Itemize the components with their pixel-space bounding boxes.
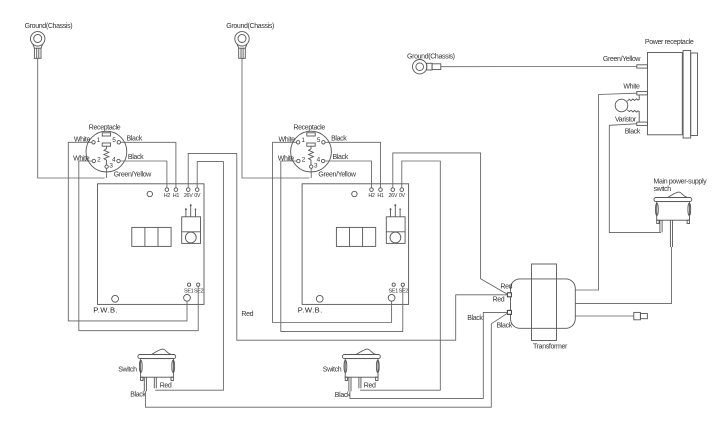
- svg-text:Black: Black: [127, 136, 143, 143]
- wire PWB2 26V (Red) to transformer: [393, 153, 508, 294]
- svg-text:Red: Red: [364, 383, 376, 390]
- svg-text:P.W.B.: P.W.B.: [298, 305, 323, 314]
- wire PWB1 26V (Red) to transformer: [188, 153, 507, 340]
- svg-text:3: 3: [314, 162, 318, 169]
- switch S2 terminal tabs: [349, 377, 361, 391]
- P.W.B. PWB2 relay component with pins: [386, 204, 405, 243]
- wire PWB1 0V to switch S1 Red terminal: [155, 162, 223, 391]
- wire J2 pin5 Black to PWB2 H1: [325, 142, 380, 188]
- transformer body: [511, 279, 576, 328]
- wire J2 pin2 White to PWB2 SE2: [281, 161, 403, 332]
- P.W.B. PWB2 terminal H2: [368, 188, 375, 199]
- P.W.B. PWB2 terminal SE1: [389, 283, 399, 295]
- P.W.B. PWB1 terminal 26V: [184, 188, 193, 199]
- wire GND2 to J2 pin3 (Green/Yellow): [242, 58, 309, 178]
- svg-text:Black: Black: [467, 315, 483, 322]
- wire J1 pin5 Black to PWB1 H1: [121, 142, 176, 188]
- svg-text:Red: Red: [500, 284, 512, 291]
- receptacle J2 pin 2: [297, 156, 306, 163]
- svg-text:H1: H1: [173, 193, 180, 199]
- P.W.B. PWB1 connector block (3 cells): [132, 227, 171, 246]
- wire J1 pin2 White to PWB1 SE2: [79, 161, 198, 331]
- wire J1 pin4 Black to PWB1 H2: [120, 161, 167, 188]
- svg-text:Black: Black: [128, 154, 144, 161]
- P.W.B. PWB1 terminal 0V: [194, 188, 201, 199]
- P.W.B. PWB1 pad below SE1: [184, 294, 191, 301]
- switch S2 body: [344, 359, 379, 381]
- wire GND3 to power receptacle Green/Yellow: [441, 66, 637, 68]
- svg-text:Transformer: Transformer: [533, 344, 568, 351]
- wire switch S1 Black to transformer: [145, 313, 507, 407]
- P.W.B. PWB2 mounting hole (bottom-left): [316, 295, 323, 302]
- wire J2 pin1 White to PWB2 SE1: [273, 142, 392, 322]
- wire PWB2 0V to switch S2 Red terminal: [360, 161, 440, 390]
- wire J1 pin3 down: [106, 168, 108, 178]
- svg-text:Receptacle: Receptacle: [89, 125, 121, 132]
- P.W.B. PWB1 board outline: [98, 184, 205, 305]
- svg-text:SE1: SE1: [389, 289, 399, 295]
- receptacle J2 pin 1: [296, 137, 305, 144]
- svg-text:Main power-supply: Main power-supply: [654, 179, 708, 186]
- P.W.B. PWB2 terminal H1: [377, 188, 384, 199]
- svg-text:Black: Black: [333, 154, 349, 161]
- svg-text:Ground(Chassis): Ground(Chassis): [25, 23, 73, 30]
- P.W.B. PWB1 mounting hole (top): [147, 191, 152, 196]
- svg-text:2: 2: [302, 156, 306, 163]
- power receptacle terminal White: [637, 92, 648, 95]
- P.W.B. PWB2 mounting hole (top): [352, 191, 357, 196]
- wire transformer to power receptacle White: [575, 93, 637, 290]
- svg-text:White: White: [278, 156, 295, 163]
- svg-text:Power receptacle: Power receptacle: [645, 39, 694, 46]
- P.W.B. PWB1 terminal SE2: [194, 283, 204, 295]
- svg-text:Ground(Chassis): Ground(Chassis): [226, 23, 274, 30]
- switch S1 top bar: [138, 355, 176, 359]
- svg-text:26V: 26V: [184, 193, 193, 199]
- ground lug GND3 ring (horizontal): [413, 59, 441, 73]
- P.W.B. PWB2 board outline: [302, 184, 409, 305]
- receptacle J2 body: [291, 131, 332, 172]
- P.W.B. PWB2 terminal 0V: [399, 188, 406, 199]
- varistor RV1: [615, 95, 639, 122]
- power receptacle body: [648, 51, 698, 139]
- receptacle J1 pin 2: [92, 156, 101, 163]
- receptacle J1 pin 4: [112, 156, 120, 163]
- svg-text:SE2: SE2: [194, 289, 204, 295]
- P.W.B. PWB2 pad below SE1: [388, 294, 395, 301]
- svg-text:Red: Red: [160, 383, 172, 390]
- receptacle J1 pin 1: [92, 137, 101, 144]
- receptacle J1 pin 3: [105, 162, 114, 169]
- switch S1 rocker actuator: [152, 349, 171, 354]
- wire switch S2 Black to transformer: [350, 312, 508, 398]
- main power-supply switch body: [656, 202, 691, 224]
- svg-text:1: 1: [301, 137, 305, 144]
- P.W.B. PWB2 terminal SE2: [399, 283, 409, 295]
- receptacle J1 internal resistor: [104, 146, 109, 165]
- ground lug GND1 ring: [31, 32, 45, 59]
- wire GND1 to J1 pin3 (Green/Yellow): [38, 58, 105, 178]
- svg-text:Receptacle: Receptacle: [293, 125, 325, 132]
- svg-text:H2: H2: [368, 193, 375, 199]
- svg-text:Black: Black: [625, 129, 641, 136]
- svg-text:Black: Black: [497, 322, 513, 329]
- svg-text:SE2: SE2: [399, 289, 409, 295]
- P.W.B. PWB1 terminal H1: [173, 188, 180, 199]
- transformer terminal (Black): [507, 310, 511, 314]
- svg-text:White: White: [73, 156, 90, 163]
- svg-text:Red: Red: [241, 311, 253, 318]
- P.W.B. PWB2 terminal 26V: [388, 188, 397, 199]
- switch S2 top bar: [343, 355, 381, 359]
- svg-text:Black: Black: [130, 392, 146, 399]
- receptacle J2 pin 5: [317, 137, 325, 144]
- svg-text:Red: Red: [493, 296, 505, 303]
- switch S1 terminal tabs: [144, 377, 156, 391]
- svg-text:Varistor: Varistor: [615, 116, 637, 123]
- receptacle J1 pin 5: [112, 137, 120, 144]
- svg-text:H2: H2: [164, 193, 171, 199]
- switch S2 rocker actuator: [357, 349, 376, 354]
- transformer terminal (Red, primary +): [507, 293, 511, 297]
- power receptacle terminal Green/Yellow: [637, 65, 648, 68]
- svg-text:5: 5: [112, 137, 116, 144]
- main power-supply switch terminal tabs: [660, 220, 673, 247]
- svg-text:Black: Black: [331, 136, 347, 143]
- svg-text:26V: 26V: [388, 193, 397, 199]
- P.W.B. PWB1 relay component with pins: [182, 204, 201, 243]
- receptacle J2 pin 3: [310, 162, 319, 169]
- svg-text:White: White: [623, 84, 640, 91]
- svg-text:0V: 0V: [399, 193, 406, 199]
- wire power receptacle Black to main switch terminal 1: [609, 124, 661, 233]
- P.W.B. PWB1 mounting hole (bottom-left): [112, 295, 119, 302]
- spade connector on transformer lead: [634, 312, 648, 319]
- svg-text:1: 1: [97, 137, 101, 144]
- ground lug GND2 ring: [235, 32, 249, 59]
- main power-supply switch rocker actuator: [668, 192, 687, 197]
- svg-text:3: 3: [109, 162, 113, 169]
- P.W.B. PWB2 connector block (3 cells): [336, 227, 375, 246]
- svg-text:Green/Yellow: Green/Yellow: [114, 172, 152, 179]
- main power-supply switch top bar: [654, 198, 692, 202]
- transformer core: [532, 264, 557, 341]
- svg-text:Ground(Chassis): Ground(Chassis): [407, 53, 455, 60]
- power receptacle terminal Black: [637, 122, 648, 125]
- P.W.B. PWB1 terminal SE1: [184, 283, 194, 295]
- svg-text:Switch: Switch: [323, 367, 342, 374]
- svg-text:Green/Yellow: Green/Yellow: [318, 172, 356, 179]
- svg-text:Switch: Switch: [118, 367, 137, 374]
- svg-text:H1: H1: [377, 193, 384, 199]
- svg-text:Black: Black: [335, 392, 351, 399]
- svg-text:P.W.B.: P.W.B.: [93, 305, 118, 314]
- wire transformer to main switch terminal 2: [575, 247, 671, 304]
- wire J2 pin3 down: [310, 168, 312, 178]
- receptacle J2 internal resistor: [309, 146, 314, 165]
- wire J1 pin1 White to PWB1 SE1: [68, 142, 187, 321]
- svg-text:0V: 0V: [194, 193, 201, 199]
- wire J2 pin4 Black to PWB2 H2: [325, 161, 372, 188]
- svg-text:switch: switch: [654, 186, 672, 193]
- svg-text:5: 5: [317, 137, 321, 144]
- svg-text:SE1: SE1: [184, 289, 194, 295]
- receptacle J2 pin 4: [317, 156, 325, 163]
- P.W.B. PWB1 terminal H2: [164, 188, 171, 199]
- wire transformer lead to spade connector: [575, 315, 634, 317]
- receptacle J1 body: [86, 131, 127, 172]
- switch S1 body: [139, 359, 174, 381]
- svg-text:Green/Yellow: Green/Yellow: [603, 56, 641, 63]
- svg-text:2: 2: [97, 156, 101, 163]
